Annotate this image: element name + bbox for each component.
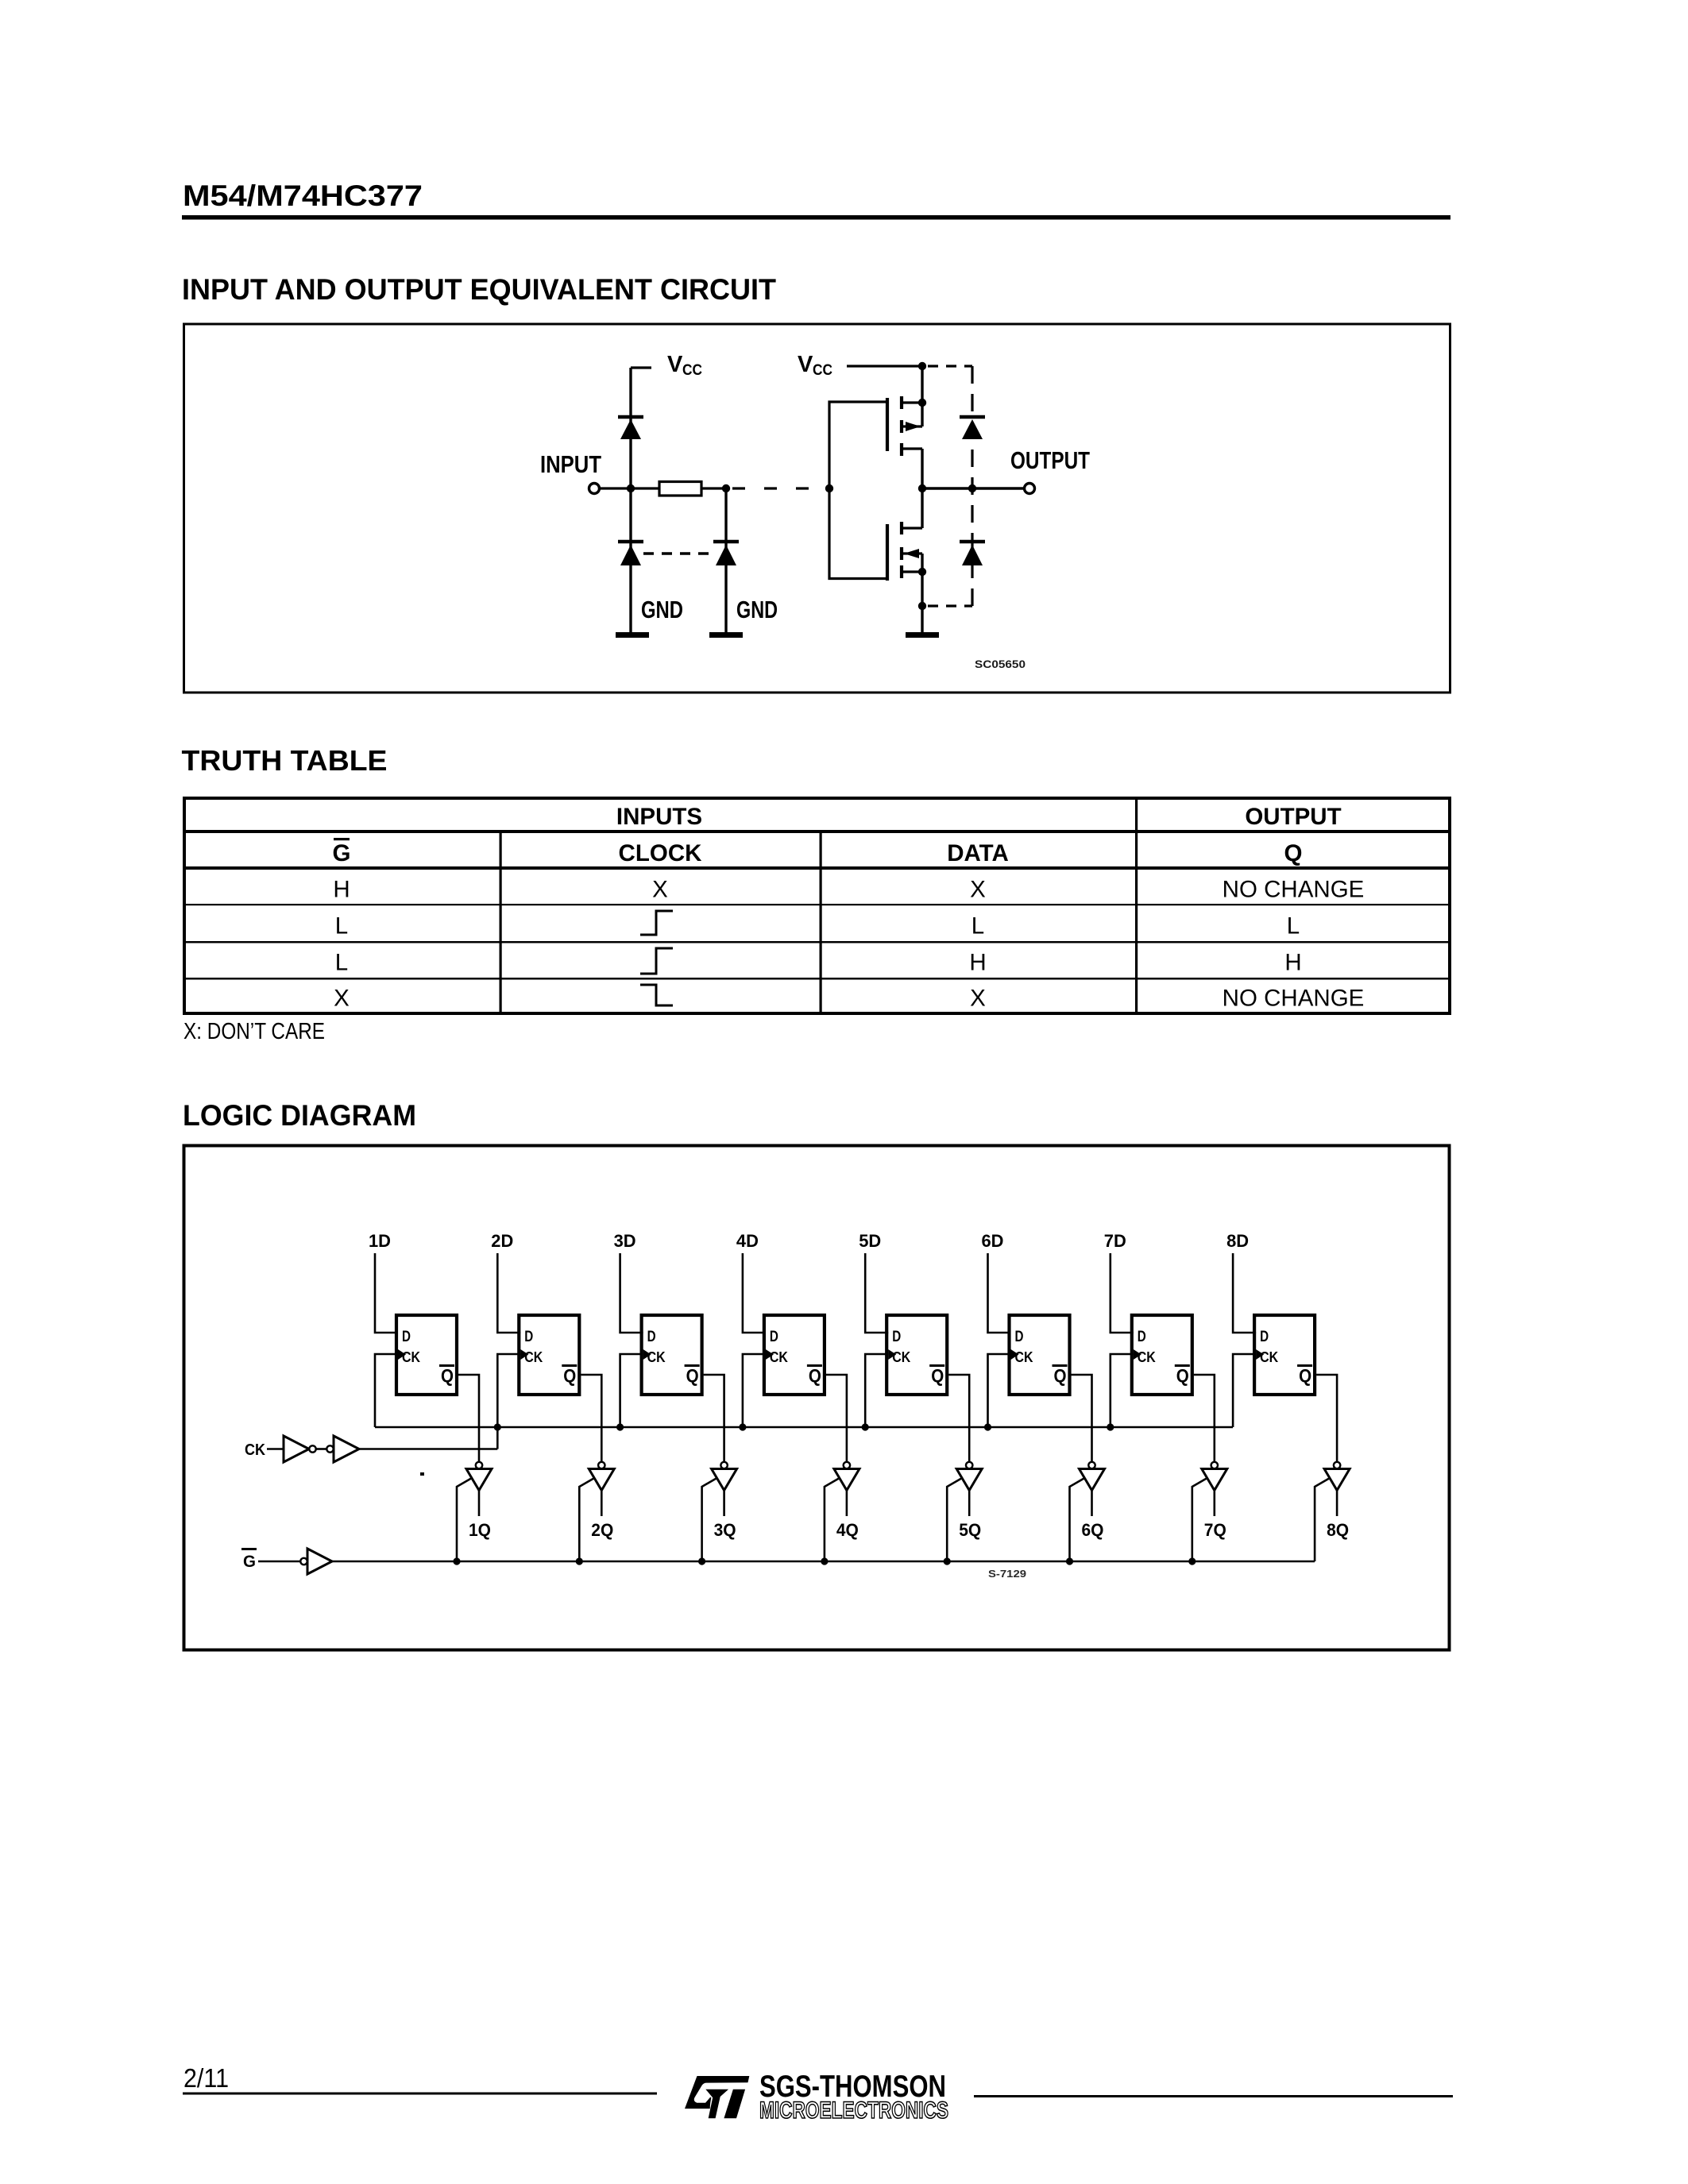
svg-text:DATA: DATA [947, 840, 1009, 866]
svg-text:G: G [333, 840, 351, 866]
svg-text:5D: 5D [859, 1231, 881, 1251]
node F (NMOS source junction) [918, 568, 926, 576]
gate loop (common gate connection) [829, 402, 887, 579]
wire: FF1 Q-bar output to buffer [458, 1375, 479, 1462]
wire: clock buffer output to rail [359, 1448, 497, 1450]
transistor Q1 PMOS gate bar [886, 398, 889, 451]
svg-text:INPUTS: INPUTS [616, 804, 702, 830]
junction on enable rail at FF7 [1188, 1557, 1196, 1565]
wire: 8D input drop to D pin [1233, 1253, 1256, 1333]
row2: CLOCK rising edge symbol [640, 911, 673, 935]
footer rule right [974, 2095, 1453, 2097]
D flip-flop FF1 box [396, 1315, 457, 1395]
wire: FF3 Q-bar output to buffer [704, 1375, 724, 1462]
svg-text:CK: CK [1260, 1349, 1278, 1365]
ground symbol (left) [616, 632, 649, 638]
svg-text:D: D [892, 1329, 901, 1345]
svg-text:GND: GND [736, 596, 778, 623]
wire: buffer U4 output to 4Q [846, 1491, 848, 1517]
svg-text:Q: Q [686, 1365, 699, 1386]
svg-text:4D: 4D [736, 1231, 759, 1251]
svg-text:G: G [243, 1553, 256, 1571]
wire: dashed diode column vertical [971, 366, 973, 606]
wire: FF4 Q-bar output to buffer [826, 1375, 847, 1462]
junction on enable rail at FF6 [1066, 1557, 1073, 1565]
svg-text:3Q: 3Q [714, 1520, 736, 1540]
node G (ground junction) [918, 602, 926, 610]
output buffer U4 triangle [834, 1469, 859, 1491]
transistor Q2 NMOS bulk stub with arrow [903, 549, 922, 558]
node C (gate node) [825, 484, 833, 492]
D flip-flop FF3 box [642, 1315, 702, 1395]
junction on clock rail at FF7 [1107, 1423, 1114, 1430]
wire: dashed link between D2 and D3 [643, 552, 713, 555]
output buffer U3 bubble [720, 1462, 727, 1468]
FF7 clock edge wedge [1134, 1349, 1141, 1360]
svg-text:L: L [335, 913, 348, 940]
output buffer U4 bubble [844, 1462, 850, 1468]
svg-text:S-7129: S-7129 [988, 1568, 1026, 1580]
transistor Q2 NMOS source stub [903, 570, 922, 573]
svg-text:TRUTH TABLE: TRUTH TABLE [182, 744, 388, 777]
D flip-flop FF7 box [1132, 1315, 1192, 1395]
output buffer U7 triangle [1202, 1469, 1227, 1491]
diode D2 GND to node A [618, 542, 643, 565]
overbar of G [334, 838, 350, 840]
wire: 1D input drop to D pin [375, 1253, 398, 1333]
svg-text:CK: CK [402, 1349, 420, 1365]
wire: resistor R1 to node B [701, 487, 726, 489]
svg-text:H: H [333, 877, 350, 903]
svg-text:D: D [402, 1329, 411, 1345]
junction on clock rail at FF3 [616, 1423, 624, 1430]
svg-text:6Q: 6Q [1082, 1520, 1104, 1540]
wire: buffer U1 output to 1Q [478, 1491, 481, 1517]
wire: FF7 Q-bar output to buffer [1194, 1375, 1215, 1462]
svg-text:Q: Q [1054, 1365, 1067, 1386]
D flip-flop FF5 box [886, 1315, 947, 1395]
wire: input terminal to node A [600, 487, 631, 489]
enable inverter input bubble [300, 1558, 307, 1565]
wire: FF6 Q-bar output to buffer [1072, 1375, 1092, 1462]
svg-text:D: D [647, 1329, 656, 1345]
svg-text:OUTPUT: OUTPUT [1010, 446, 1090, 474]
FF5 pin label Q-bar [929, 1364, 944, 1386]
node H (output node) [918, 484, 926, 492]
diode D4 output to Vcc [960, 417, 985, 439]
node E (PMOS source junction) [918, 399, 926, 407]
svg-text:X: X [970, 877, 986, 903]
svg-text:2Q: 2Q [591, 1520, 613, 1540]
diode D3 GND to node B [713, 542, 739, 565]
wire: input vertical (Vcc to input node) [629, 368, 632, 488]
wire: 3D input drop to D pin [620, 1253, 643, 1333]
wire: enable riser to buffer U1 [457, 1478, 472, 1561]
transistor Q2 NMOS drain stub [903, 527, 922, 529]
svg-text:SC05650: SC05650 [975, 658, 1026, 670]
FF1 clock edge wedge [398, 1349, 406, 1360]
svg-text:D: D [770, 1329, 778, 1345]
wire: enable riser to buffer U7 [1192, 1478, 1207, 1561]
wire: CK pin riser of FF8 [1233, 1354, 1256, 1427]
svg-text:MICROELECTRONICS: MICROELECTRONICS [759, 2097, 948, 2124]
output buffer U8 triangle [1324, 1469, 1350, 1491]
svg-text:H: H [1284, 950, 1301, 976]
output buffer U5 bubble [966, 1462, 972, 1468]
FF1 pin label Q-bar [439, 1364, 454, 1386]
svg-text:Q: Q [1299, 1365, 1311, 1386]
FF8 clock edge wedge [1256, 1349, 1264, 1360]
junction on enable rail at FF5 [944, 1557, 951, 1565]
Vcc label (input side) [667, 352, 702, 379]
svg-text:2D: 2D [491, 1231, 513, 1251]
node I (diode column junction on output) [968, 484, 976, 492]
Vcc label (output side) [798, 352, 832, 379]
wire: CK pin riser of FF5 [865, 1354, 888, 1427]
equivalent-circuit frame box [184, 324, 1450, 693]
wire: enable riser to buffer U3 [702, 1478, 717, 1561]
output terminal circle [1025, 484, 1035, 494]
FF6 clock edge wedge [1011, 1349, 1019, 1360]
output buffer U2 triangle [589, 1469, 614, 1491]
footer rule left [183, 2093, 657, 2095]
svg-text:3D: 3D [614, 1231, 636, 1251]
junction on enable rail at FF1 [453, 1557, 460, 1565]
wire: 5D input drop to D pin [865, 1253, 888, 1333]
G-bar enable input label [241, 1548, 257, 1571]
wire: enable riser to buffer U4 [825, 1478, 840, 1561]
svg-text:INPUT: INPUT [540, 450, 601, 478]
svg-text:2/11: 2/11 [183, 2063, 229, 2093]
svg-text:X: X [652, 877, 668, 903]
wire: buffer U8 output to 8Q [1336, 1491, 1338, 1517]
truth table grid [183, 797, 1451, 1015]
junction on enable rail at FF4 [821, 1557, 828, 1565]
svg-text:D: D [1260, 1329, 1269, 1345]
transistor Q1 PMOS channel bar [900, 396, 903, 456]
clock buffer 2 input bubble [326, 1445, 333, 1452]
wire: between clock inverters [316, 1448, 326, 1450]
wire: enable riser to buffer U6 [1070, 1478, 1085, 1561]
svg-text:CLOCK: CLOCK [619, 840, 703, 866]
wire: CK pin riser of FF1 [375, 1354, 398, 1427]
svg-text:CC: CC [682, 361, 702, 379]
wire: enable riser to buffer U5 [947, 1478, 962, 1561]
svg-text:D: D [1138, 1329, 1146, 1345]
junction on clock rail at FF5 [862, 1423, 869, 1430]
wire: node B down to ground [724, 488, 727, 635]
FF3 pin label Q-bar [685, 1364, 700, 1386]
wire: FF5 Q-bar output to buffer [948, 1375, 969, 1462]
wire: 7D input drop to D pin [1111, 1253, 1134, 1333]
output buffer U1 triangle [466, 1469, 492, 1491]
ground symbol (output stage) [906, 632, 939, 638]
row4: CLOCK falling edge symbol [640, 985, 673, 1005]
wire: CK pin riser of FF6 [988, 1354, 1011, 1427]
svg-text:D: D [524, 1329, 533, 1345]
FF6 pin label Q-bar [1053, 1364, 1068, 1386]
wire: 2D input drop to D pin [497, 1253, 520, 1333]
wire: CK pin riser of FF2 [497, 1354, 520, 1449]
svg-text:Q: Q [1176, 1365, 1189, 1386]
wire: PMOS drain to output node to NMOS drain [921, 449, 923, 528]
junction on enable rail at FF3 [698, 1557, 705, 1565]
svg-text:INPUT AND OUTPUT EQUIVALENT CI: INPUT AND OUTPUT EQUIVALENT CIRCUIT [182, 273, 776, 306]
wire: dashed Vcc node to protection diode column [928, 365, 972, 367]
svg-text:5Q: 5Q [959, 1520, 981, 1540]
node A (input node) [627, 484, 635, 492]
output buffer U6 triangle [1080, 1469, 1105, 1491]
wire: CK pin riser of FF3 [620, 1354, 643, 1427]
transistor Q2 NMOS gate bar [886, 524, 889, 581]
stray printed dot [420, 1472, 424, 1476]
row3: CLOCK rising edge symbol [640, 948, 673, 974]
output buffer U1 bubble [476, 1462, 482, 1468]
D flip-flop FF6 box [1010, 1315, 1070, 1395]
clock buffer 2 triangle [334, 1436, 359, 1462]
wire: CK pin riser of FF7 [1111, 1354, 1134, 1427]
FF7 pin label Q-bar [1175, 1364, 1190, 1386]
svg-text:NO CHANGE: NO CHANGE [1223, 877, 1365, 903]
svg-text:Q: Q [563, 1365, 576, 1386]
svg-text:D: D [1015, 1329, 1024, 1345]
SGS-Thomson ST logo [685, 2076, 749, 2118]
clock inverter 1 triangle [284, 1436, 309, 1462]
D flip-flop FF4 box [764, 1315, 825, 1395]
output buffer U6 bubble [1088, 1462, 1095, 1468]
output buffer U8 bubble [1334, 1462, 1340, 1468]
svg-text:CK: CK [245, 1441, 265, 1459]
logic diagram frame box [184, 1146, 1450, 1650]
svg-text:V: V [798, 352, 813, 377]
svg-text:7D: 7D [1104, 1231, 1126, 1251]
svg-text:M54/M74HC377: M54/M74HC377 [183, 179, 423, 212]
svg-text:CK: CK [770, 1349, 788, 1365]
output buffer U2 bubble [598, 1462, 605, 1468]
node B (post-resistor node) [722, 484, 730, 492]
transistor Q1 PMOS source stub [903, 401, 922, 403]
svg-text:X: DON’T CARE: X: DON’T CARE [183, 1019, 325, 1044]
diode D1 input to Vcc [618, 417, 643, 439]
wire: node A to resistor R1 [631, 487, 659, 489]
svg-text:L: L [1287, 913, 1300, 940]
svg-text:Q: Q [1284, 840, 1303, 866]
svg-text:LOGIC DIAGRAM: LOGIC DIAGRAM [183, 1099, 416, 1132]
svg-text:X: X [334, 986, 350, 1012]
enable inverter triangle [307, 1549, 332, 1574]
wire: CK label to inverter [267, 1448, 284, 1450]
svg-text:CK: CK [647, 1349, 666, 1365]
wire: FF2 Q-bar output to buffer [581, 1375, 601, 1462]
wire: dashed link node B to gate node C [732, 487, 826, 489]
junction on enable rail at FF2 [576, 1557, 583, 1565]
svg-text:7Q: 7Q [1204, 1520, 1226, 1540]
wire: G label to enable inverter [258, 1561, 300, 1563]
svg-text:1D: 1D [369, 1231, 391, 1251]
output buffer U5 triangle [956, 1469, 982, 1491]
transistor Q2 NMOS channel bar [900, 522, 903, 578]
svg-text:Q: Q [809, 1365, 821, 1386]
wire: buffer U6 output to 6Q [1091, 1491, 1093, 1517]
svg-text:GND: GND [641, 596, 683, 623]
Vcc rail arm (input side) [631, 366, 651, 369]
junction on clock rail at FF2 [494, 1423, 501, 1430]
svg-text:8Q: 8Q [1327, 1520, 1349, 1540]
wire: enable riser to buffer U8 [1315, 1478, 1330, 1561]
wire: CK pin riser of FF4 [743, 1354, 766, 1427]
svg-text:1Q: 1Q [469, 1520, 491, 1540]
FF5 clock edge wedge [888, 1349, 896, 1360]
junction on clock rail at FF4 [739, 1423, 746, 1430]
svg-text:Q: Q [441, 1365, 454, 1386]
diode D5 GND to output [960, 542, 985, 565]
wire: buffer U5 output to 5Q [968, 1491, 971, 1517]
svg-text:NO CHANGE: NO CHANGE [1223, 986, 1365, 1012]
header rule [182, 215, 1450, 220]
wire: buffer U2 output to 2Q [601, 1491, 603, 1517]
FF4 pin label Q-bar [807, 1364, 822, 1386]
FF2 pin label Q-bar [562, 1364, 577, 1386]
wire: enable rail [332, 1561, 1315, 1563]
D flip-flop FF8 box [1254, 1315, 1315, 1395]
wire: buffer U3 output to 3Q [723, 1491, 725, 1517]
wire: buffer U7 output to 7Q [1214, 1491, 1216, 1517]
output buffer U7 bubble [1211, 1462, 1218, 1468]
wire: Vcc node down to PMOS [921, 366, 923, 426]
svg-text:OUTPUT: OUTPUT [1245, 804, 1341, 830]
wire: Vcc to node D [847, 365, 922, 367]
wire: 6D input drop to D pin [988, 1253, 1011, 1333]
svg-text:CC: CC [813, 361, 832, 379]
wire: NMOS bulk/source down to ground [921, 554, 923, 635]
input terminal circle [589, 484, 600, 494]
ground symbol (right) [709, 632, 743, 638]
wire: enable riser to buffer U2 [579, 1478, 594, 1561]
svg-text:X: X [970, 986, 986, 1012]
svg-text:4Q: 4Q [836, 1520, 859, 1540]
FF8 pin label Q-bar [1297, 1364, 1312, 1386]
svg-text:CK: CK [524, 1349, 543, 1365]
wire: output node to output terminal [922, 487, 1024, 489]
svg-text:V: V [667, 352, 683, 377]
clock inverter 1 output bubble [309, 1445, 315, 1452]
wire: FF8 Q-bar output to buffer [1316, 1375, 1337, 1462]
svg-text:L: L [335, 950, 348, 976]
output buffer U3 triangle [712, 1469, 737, 1491]
wire: 4D input drop to D pin [743, 1253, 766, 1333]
FF2 clock edge wedge [520, 1349, 528, 1360]
svg-text:CK: CK [892, 1349, 910, 1365]
svg-text:CK: CK [1138, 1349, 1156, 1365]
junction on clock rail at FF6 [984, 1423, 991, 1430]
svg-text:H: H [969, 950, 986, 976]
svg-text:CK: CK [1015, 1349, 1033, 1365]
wire: clock rail [375, 1426, 1233, 1429]
FF3 clock edge wedge [643, 1349, 651, 1360]
node D (Vcc node) [918, 362, 926, 370]
FF4 clock edge wedge [766, 1349, 774, 1360]
transistor Q1 PMOS drain stub [903, 447, 922, 450]
resistor R1 (input series resistor) [659, 482, 701, 496]
transistor Q1 PMOS bulk stub with arrow [903, 422, 922, 431]
wire: node A down to ground [629, 488, 632, 635]
svg-text:6D: 6D [982, 1231, 1004, 1251]
D flip-flop FF2 box [519, 1315, 579, 1395]
svg-text:8D: 8D [1226, 1231, 1249, 1251]
wire: dashed ground link to diode column [928, 604, 972, 607]
svg-text:L: L [971, 913, 984, 940]
svg-text:Q: Q [931, 1365, 944, 1386]
